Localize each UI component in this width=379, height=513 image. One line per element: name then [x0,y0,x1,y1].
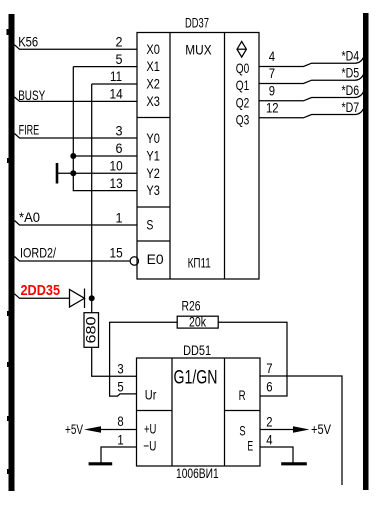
svg-text:КП11: КП11 [188,255,211,271]
svg-text:10: 10 [110,158,123,174]
svg-text:5: 5 [117,379,123,395]
svg-text:Y1: Y1 [146,148,160,164]
wire diode anode from bus [15,294,70,299]
svg-text:9: 9 [269,82,275,98]
svg-text:X2: X2 [146,76,160,92]
node junction dot Y2 [70,170,76,176]
svg-text:Y2: Y2 [146,165,160,181]
wire Q0 pin 4 to bus *D4 [259,56,365,67]
svg-text:2: 2 [266,414,272,430]
svg-text:*D5: *D5 [342,65,360,81]
timer U2: chip DD51 outline [137,358,261,466]
svg-text:2DD35: 2DD35 [21,283,61,299]
svg-text:20k: 20k [189,314,207,330]
svg-text:7: 7 [266,360,272,376]
svg-text:5: 5 [116,51,123,67]
svg-text:X0: X0 [146,41,160,57]
wire junction column X1-Y1-Y2-Y3 [72,67,74,174]
svg-text:Q3: Q3 [236,111,250,127]
wire pin 6 (Y1) [73,155,137,157]
wire pin 10 (Y2) [73,172,137,174]
svg-text:4: 4 [269,48,275,64]
svg-text:8: 8 [117,413,123,429]
svg-text:IORD2/: IORD2/ [20,245,56,261]
+5V arrow left [84,426,101,432]
svg-text:+5V: +5V [65,421,83,437]
svg-text:+U: +U [144,420,156,436]
wire X2 column down to diode node [91,84,93,298]
svg-text:6: 6 [266,379,272,395]
wire 680 to DD51 pin 3 [92,347,137,376]
svg-text:DD37: DD37 [185,15,209,31]
wire pin 2 to +5V arrow right [260,429,293,431]
wire K56 to pin 2 (X0) [15,45,138,49]
wire *A0 to pin 1 (S) [15,221,138,226]
svg-text:6: 6 [116,140,123,156]
svg-text:11: 11 [110,68,122,84]
resistor R26 [177,316,218,328]
svg-text:13: 13 [110,175,123,191]
wire diode node to resistor 680 [91,298,93,312]
svg-text:1: 1 [117,432,123,448]
wire pin 1 to ground [101,447,137,463]
resistor R 680 [84,313,99,348]
3-state output symbol (diamond) [237,41,246,57]
svg-text:*D7: *D7 [342,99,360,115]
wire Q2 pin 9 to bus *D6 [259,90,365,101]
svg-text:−U: −U [143,437,156,453]
svg-text:15: 15 [110,244,123,260]
svg-text:G1/GN: G1/GN [174,366,218,388]
wire pin 11 (X2) from diode column [92,83,137,85]
ground (sideways) tied to Y2 line [57,163,73,184]
diode VD 2DD35 [70,289,85,309]
svg-text:DD51: DD51 [183,342,211,358]
svg-text:1: 1 [116,209,123,225]
svg-text:R: R [239,387,246,403]
ground right [281,462,307,465]
ground left [89,462,113,465]
svg-text:K56: K56 [18,34,38,50]
svg-text:MUX: MUX [185,42,212,58]
svg-text:Q1: Q1 [236,77,250,93]
svg-text:14: 14 [110,86,123,102]
svg-text:2: 2 [116,33,123,49]
svg-text:X1: X1 [146,58,160,74]
wire +5V arrow into pin 8 [101,429,137,431]
svg-text:E: E [247,438,253,454]
svg-text:Q2: Q2 [236,94,250,110]
svg-text:12: 12 [266,99,279,115]
wire R26 left to DD51 pin 5 [110,322,178,396]
svg-text:S: S [239,422,245,438]
wire pin 5 (X1) from junction column [73,66,137,68]
svg-text:680: 680 [83,316,99,343]
wire pin 7 long run to lower right [260,376,342,485]
svg-text:S: S [146,217,153,233]
svg-text:BUSY: BUSY [18,87,45,103]
svg-text:R26: R26 [182,298,201,314]
wire pin 13 (Y3) with corner from junction column [73,173,137,190]
svg-text:E0: E0 [147,251,164,267]
svg-text:*D4: *D4 [342,48,360,64]
svg-text:Y0: Y0 [146,130,160,146]
svg-text:Y3: Y3 [146,182,160,198]
pin labels Y0..Y3 [146,130,160,198]
wire pin 4 to ground [260,447,293,463]
wire FIRE to pin 3 (Y0) [15,134,138,139]
svg-text:*A0: *A0 [19,209,40,225]
wire IORD2/ to pin 15 (E0) [15,257,131,262]
bus: left data bus bar [7,14,15,491]
svg-text:3: 3 [117,360,123,376]
wire Q1 pin 7 to bus *D5 [259,73,365,84]
svg-text:3: 3 [116,122,123,138]
node junction dot Y1 [70,153,76,159]
svg-text:*D6: *D6 [342,82,360,98]
op-amp U1: multiplexer chip DD37 outline [137,33,259,280]
pin E0 inversion circle [130,257,138,265]
svg-text:FIRE: FIRE [19,121,40,137]
svg-text:4: 4 [266,432,272,448]
svg-text:Ur: Ur [145,387,157,403]
svg-text:Q0: Q0 [236,60,250,76]
pin labels X0..X3 [146,41,160,109]
wire Q3 pin 12 to bus *D7 [259,107,365,118]
wire BUSY to pin 14 (X3) [15,97,138,101]
svg-text:X3: X3 [146,93,160,109]
svg-text:7: 7 [269,65,275,81]
svg-text:1006ВИ1: 1006ВИ1 [176,465,219,481]
wire R26 right to DD51 pin 6 [218,322,287,396]
bus: right data bus bar [363,13,369,490]
+5V arrow right [293,426,310,432]
node junction dot diode/X2/R680 [89,295,95,301]
pin labels Q0..Q3 [236,60,250,128]
svg-text:+5V: +5V [311,421,332,437]
